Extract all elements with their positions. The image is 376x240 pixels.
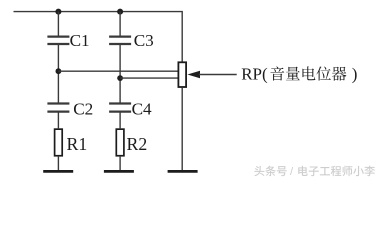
node junction dot C3/C4 to pot: [117, 75, 123, 81]
ground bar under potentiometer: [168, 170, 198, 173]
ground bar under R2: [104, 170, 134, 173]
svg-text:C2: C2: [73, 99, 93, 118]
node junction dot C1/C2 to pot top terminal: [56, 68, 62, 74]
node junction dot at C3 top: [117, 9, 123, 15]
wire C1 to C2 through node: [57, 45, 59, 103]
wire C3 to C4 through node: [119, 45, 121, 103]
wire from top rail to C3: [119, 12, 121, 36]
wire C4 to R2: [119, 113, 121, 129]
svg-text:/: /: [290, 166, 294, 178]
potentiometer RP body: [178, 62, 186, 87]
wire R1 to ground: [57, 157, 59, 172]
resistor R1: [55, 129, 63, 156]
capacitor C1: [47, 37, 69, 44]
ground bar under R1: [43, 170, 73, 173]
wire top rail with right-side drop to potentiometer: [14, 12, 183, 63]
label 音量电位器 (volume potentiometer): [270, 66, 346, 80]
svg-text:C4: C4: [132, 99, 152, 118]
resistor R2: [116, 129, 124, 156]
wire mid rail 2 to potentiometer: [120, 77, 177, 79]
wire C2 to R1: [57, 113, 59, 129]
node junction dot at C1 top: [55, 9, 61, 15]
capacitor C2: [47, 104, 69, 112]
arrow shaft: [199, 74, 237, 76]
capacitor C4: [109, 104, 131, 112]
svg-text:C3: C3: [134, 31, 154, 50]
svg-text:C1: C1: [70, 31, 90, 50]
svg-text:): ): [352, 64, 358, 83]
wire from top rail to C1: [57, 12, 59, 36]
capacitor C3: [109, 37, 131, 44]
svg-text:R2: R2: [127, 134, 148, 154]
watermark 头条号/电子工程师小李: [254, 166, 375, 178]
wire mid rail 1 to potentiometer: [58, 70, 177, 72]
arrow head pointing to pot wiper: [187, 71, 200, 78]
wire pot bottom to ground: [181, 88, 183, 171]
wire R2 to ground: [119, 157, 121, 172]
svg-text:R1: R1: [67, 134, 88, 154]
svg-text:RP(: RP(: [241, 64, 268, 83]
